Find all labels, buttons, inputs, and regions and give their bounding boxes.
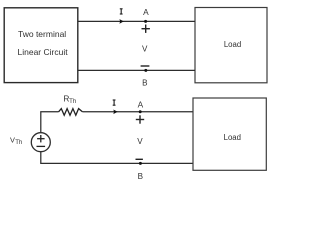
svg-text:Load: Load [224,40,241,49]
svg-text:V: V [142,45,148,54]
svg-text:Load: Load [224,133,241,142]
svg-text:Linear Circuit: Linear Circuit [18,47,69,57]
svg-text:Th: Th [15,139,22,146]
svg-text:Th: Th [69,98,76,105]
svg-text:A: A [143,7,149,17]
svg-text:V: V [137,137,143,146]
svg-text:Two terminal: Two terminal [18,29,66,39]
svg-text:B: B [142,79,147,88]
svg-text:A: A [138,99,144,109]
svg-text:B: B [138,172,143,181]
